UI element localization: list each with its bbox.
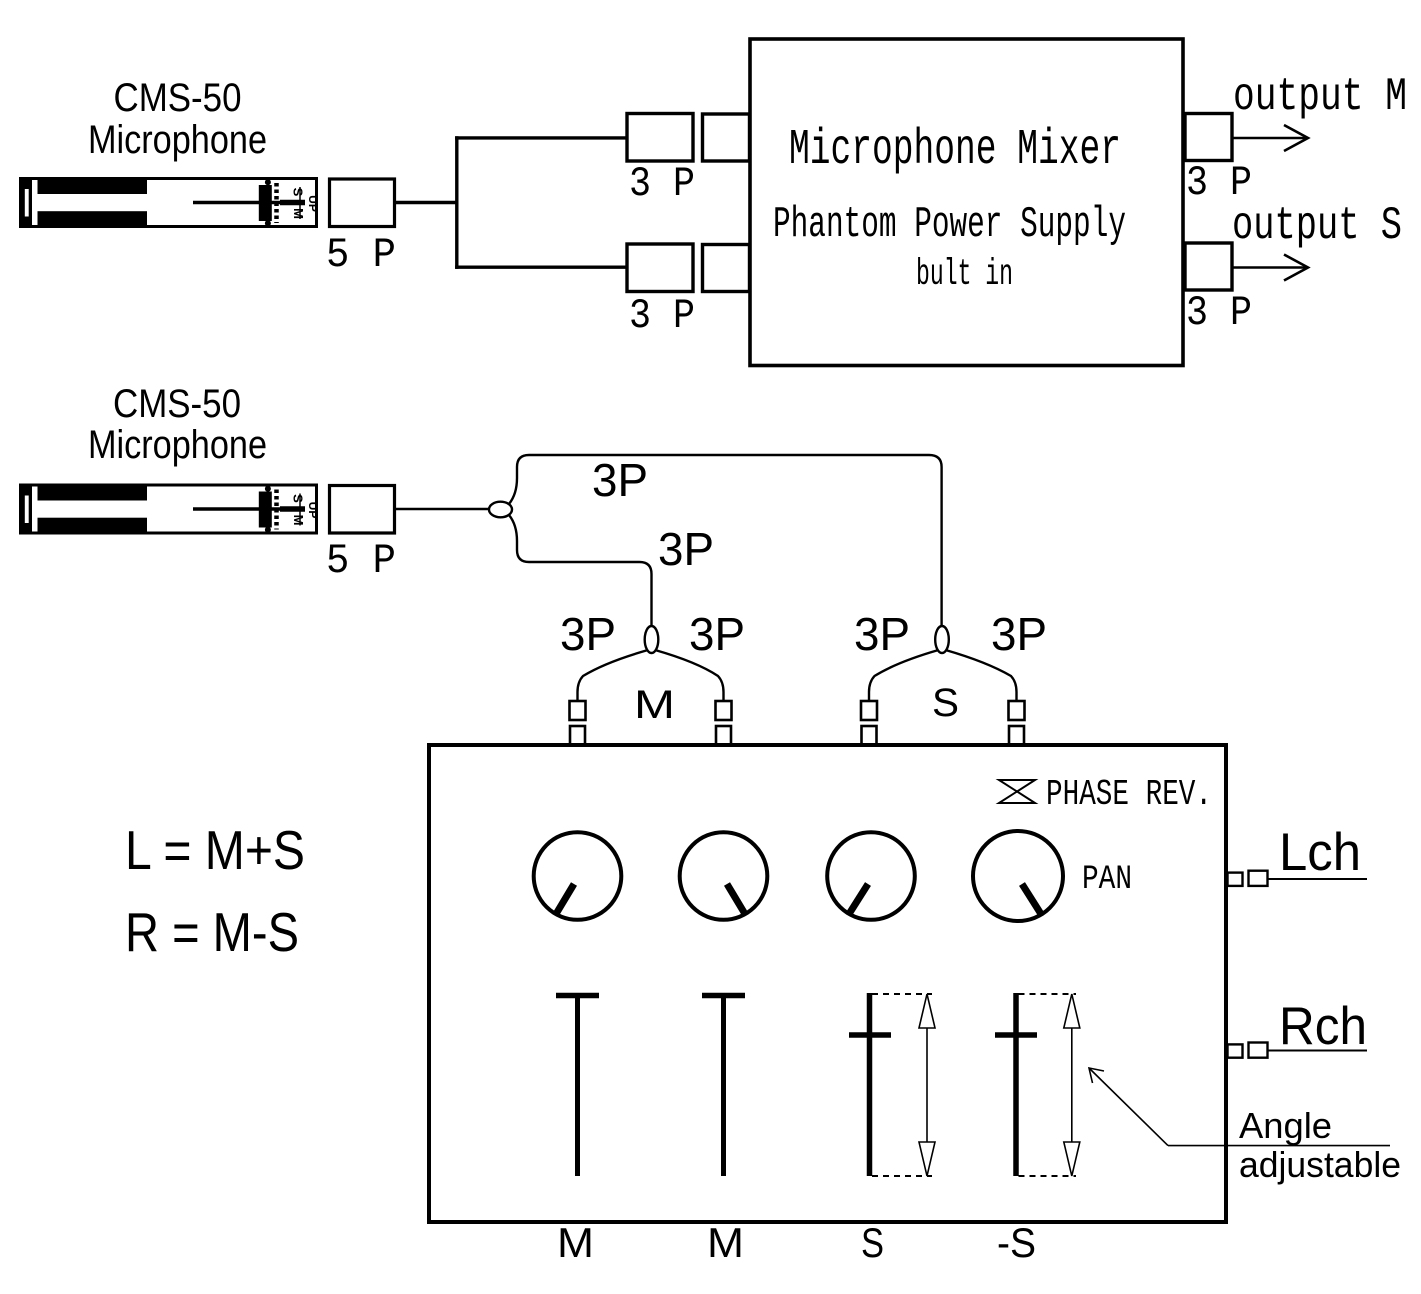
mixer box: [750, 39, 1183, 366]
slider S travel double arrow: [919, 994, 935, 1176]
svg-text:L = M+S: L = M+S: [125, 819, 305, 881]
svg-text:5 P: 5 P: [326, 231, 396, 279]
knob 3: [827, 832, 915, 920]
svg-text:output M: output M: [1233, 71, 1407, 123]
wire from 5P to split: [395, 201, 459, 204]
svg-text:3P: 3P: [854, 608, 910, 660]
wire S splitter right branch: [946, 650, 1017, 701]
slider -S: [1013, 993, 1019, 1176]
connector 5P box (2): [330, 486, 395, 534]
wire upper 3P branch to S splitter: [509, 455, 942, 627]
svg-text:R = M-S: R = M-S: [125, 901, 299, 963]
svg-text:CMS-50: CMS-50: [113, 382, 241, 426]
svg-text:CMS-50: CMS-50: [114, 76, 242, 120]
svg-text:PAN: PAN: [1082, 861, 1132, 899]
svg-text:PHASE REV.: PHASE REV.: [1046, 774, 1212, 815]
socket box top (mixer input M): [703, 114, 750, 161]
slider S: [867, 993, 873, 1176]
connector 3P box top-left: [627, 114, 693, 162]
slider -S dashed guides: [1019, 993, 1077, 995]
svg-text:bult in: bult in: [916, 254, 1013, 296]
socket box bottom (mixer input S): [703, 245, 750, 292]
wire S splitter left branch: [869, 650, 939, 701]
arrow output S: [1232, 255, 1308, 281]
slider S dashed guides: [872, 993, 932, 995]
svg-text:3P: 3P: [658, 523, 714, 575]
svg-text:3 P: 3 P: [629, 292, 695, 340]
svg-text:Rch: Rch: [1279, 997, 1367, 1056]
Lch line: [1268, 878, 1368, 880]
angle callout diagonal arrow: [1089, 1068, 1168, 1146]
input jack S1: [861, 701, 877, 745]
Rch line: [1268, 1050, 1368, 1052]
wire top branch: [455, 136, 627, 139]
Y-split ellipse (cable splitter): [489, 502, 512, 518]
wire lower 3P branch to M splitter: [509, 515, 652, 627]
mixer front panel box: [429, 745, 1226, 1222]
svg-text:-S: -S: [997, 1219, 1036, 1266]
input jack S2: [1009, 701, 1025, 745]
Lch jack squares: [1228, 871, 1268, 886]
svg-text:Microphone Mixer: Microphone Mixer: [789, 122, 1121, 179]
wire M splitter right branch: [655, 650, 724, 701]
input jack M2: [716, 701, 732, 745]
svg-text:M: M: [634, 683, 675, 727]
svg-text:3P: 3P: [592, 454, 648, 506]
svg-text:Lch: Lch: [1279, 823, 1361, 882]
svg-text:M: M: [557, 1219, 594, 1266]
wire split vertical: [455, 136, 458, 269]
svg-text:Angle: Angle: [1239, 1105, 1332, 1146]
slider M2: [702, 993, 745, 999]
S Y-splitter ellipse: [935, 626, 949, 653]
M Y-splitter ellipse: [645, 626, 659, 653]
svg-text:S: S: [861, 1219, 884, 1266]
wire bottom branch: [455, 266, 627, 269]
knob 2: [680, 832, 768, 920]
knob 4 (PAN): [973, 831, 1063, 921]
svg-text:Phantom Power Supply: Phantom Power Supply: [773, 200, 1126, 250]
angle callout line: [1168, 1145, 1390, 1147]
microphone 2: [21, 485, 321, 533]
svg-text:5 P: 5 P: [326, 537, 396, 585]
svg-text:3P: 3P: [991, 608, 1047, 660]
svg-text:S: S: [932, 681, 959, 725]
slider -S travel double arrow: [1064, 994, 1080, 1176]
output box S: [1185, 243, 1232, 290]
svg-text:Microphone: Microphone: [88, 423, 267, 467]
wire M splitter left branch: [578, 650, 649, 701]
output box M: [1185, 114, 1232, 161]
arrow output M: [1232, 125, 1308, 151]
svg-text:M: M: [707, 1219, 744, 1266]
microphone 1: [21, 179, 321, 227]
wire 5P to Y-split: [395, 508, 491, 510]
connector 3P box bottom-left: [627, 244, 693, 292]
svg-text:Microphone: Microphone: [88, 118, 267, 162]
connector 5P box (1): [330, 179, 395, 227]
svg-text:3 P: 3 P: [1186, 289, 1252, 337]
svg-text:adjustable: adjustable: [1239, 1144, 1401, 1185]
slider M1: [556, 993, 599, 999]
input jack M1 (two squares): [570, 701, 586, 745]
phase reverse bowtie symbol: [999, 780, 1035, 803]
Rch jack squares: [1228, 1043, 1268, 1058]
knob 1: [534, 832, 622, 920]
svg-text:3P: 3P: [689, 608, 745, 660]
svg-text:3 P: 3 P: [629, 160, 695, 208]
svg-text:3P: 3P: [560, 608, 616, 660]
svg-text:output S: output S: [1232, 200, 1402, 252]
